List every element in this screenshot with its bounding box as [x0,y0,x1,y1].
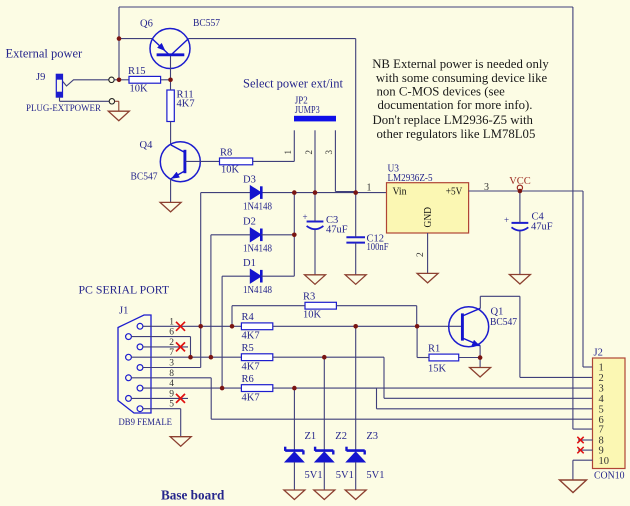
svg-text:GND: GND [423,207,434,228]
wire J1 line3 [143,367,201,369]
X mark line2 [176,342,185,351]
svg-text:DB9 FEMALE: DB9 FEMALE [119,417,173,428]
wire J1 line5 to ground [143,408,181,410]
diode D1 1N4148 [250,269,261,283]
wire JP2 pin2 [314,130,316,192]
transistor Q4 BC547 [160,142,200,182]
svg-text:J9: J9 [36,72,45,83]
resistor R6 [241,385,272,392]
ground J2 [560,480,587,493]
svg-text:5: 5 [599,404,604,415]
wire C4 top [519,191,521,223]
wire R1 left [416,326,418,357]
resistor R11 [167,90,174,122]
X mark line9 [176,394,185,403]
resistor R4 [241,323,272,330]
wire Q4 emitter to ground [170,179,172,203]
wire J1 line7 [131,356,241,358]
svg-text:R4: R4 [242,312,255,323]
svg-text:4K7: 4K7 [242,331,260,342]
zener Z1 5V1 [285,449,303,452]
svg-text:Select power ext/int: Select power ext/int [243,77,343,91]
wire J1 line6 [131,336,190,338]
svg-text:1N4148: 1N4148 [243,285,272,296]
svg-text:External power: External power [6,47,84,61]
svg-text:100nF: 100nF [367,242,389,253]
svg-text:PC SERIAL PORT: PC SERIAL PORT [79,283,170,297]
svg-text:D3: D3 [243,175,256,186]
wire J1 line1 [143,325,241,327]
jumper JP2 JUMP3 bar [294,116,336,122]
wire D2 row [211,234,251,236]
svg-text:R6: R6 [242,374,254,385]
svg-text:non C-MOS devices (see: non C-MOS devices (see [377,85,506,99]
ground Z3 [345,490,366,500]
svg-text:documentation for more info).: documentation for more info). [378,98,533,112]
capacitor C12 100nF [346,236,365,238]
svg-text:Z3: Z3 [366,431,378,442]
wire R3 left [232,305,305,307]
ground Z2 [314,490,335,500]
ground U3 [417,273,438,283]
pin circle jack sleeve [109,99,114,104]
zener Z2 5V1 [315,449,333,452]
svg-text:R3: R3 [303,292,315,303]
wire Z1 vertical [293,388,295,450]
svg-text:D1: D1 [243,258,256,269]
wire J2 pin7 stub [573,428,593,430]
wire D1 anode down to line4 [221,276,223,388]
wire top power rail [119,6,573,8]
wire C3 top [314,193,316,222]
svg-text:47uF: 47uF [531,222,553,233]
svg-text:JUMP3: JUMP3 [295,105,320,116]
wire diode cathode vertical [293,193,295,277]
svg-text:4K7: 4K7 [177,99,195,110]
wire zener grounds [293,462,295,490]
svg-text:CON10: CON10 [594,471,625,482]
svg-text:Q4: Q4 [140,140,154,151]
wire U3 pin2 gnd [427,233,429,273]
resistor R8 [220,158,253,165]
svg-text:2: 2 [304,150,314,155]
svg-text:PLUG-EXTPOWER: PLUG-EXTPOWER [26,104,102,114]
junction dots [117,36,122,41]
svg-text:2: 2 [599,373,604,384]
zener Z3 5V1 [347,449,365,452]
wire Q6 collector to bus [189,38,356,40]
svg-text:R15: R15 [128,66,146,77]
svg-text:Don't replace LM2936-Z5 with: Don't replace LM2936-Z5 with [373,113,534,127]
svg-text:15K: 15K [428,364,447,375]
svg-text:8: 8 [169,369,174,379]
wire jack sleeve [59,97,61,101]
wire R11 top [170,80,172,90]
resistor R3 [305,302,336,309]
svg-text:10K: 10K [303,310,322,321]
svg-text:4: 4 [599,394,605,405]
svg-text:5V1: 5V1 [305,470,323,481]
wire Q1 emitter [479,346,481,368]
svg-text:with some consuming device lik: with some consuming device like [376,71,548,85]
wire J1 line8 to J2 pin6 [131,377,211,379]
connector J2 CON10 box [593,358,626,469]
svg-text:J2: J2 [594,348,603,359]
svg-text:other regulators like LM78L05: other regulators like LM78L05 [377,127,536,141]
transistor Q6 BC557 [150,29,190,69]
svg-text:5V1: 5V1 [336,470,354,481]
svg-text:Z2: Z2 [335,431,347,442]
wire J2 pin9 stub [578,449,593,451]
svg-text:LM2936Z-5: LM2936Z-5 [388,173,433,184]
svg-text:10: 10 [599,456,610,467]
wire C3 bottom [314,230,316,275]
svg-text:Base board: Base board [161,488,225,503]
wire R4 net to J2 pin3 [356,387,593,389]
svg-text:+: + [303,212,308,222]
svg-text:1: 1 [367,183,372,194]
ground Q1 [470,368,491,378]
wire Q6 emitter [119,38,152,40]
wire R3 right [336,305,416,307]
X mark J2 pin8 [577,437,583,443]
regulator U3 LM2936Z-5 box [387,183,469,233]
X mark J2 pin9 [577,447,583,453]
svg-text:10K: 10K [130,84,149,95]
wire D2 anode down to line7 [210,235,212,357]
wire jack tip contact [63,80,109,86]
svg-text:Q6: Q6 [140,19,153,30]
resistor R15 [129,76,161,83]
wire R1 right [459,357,480,359]
wire C4 bottom [519,231,521,274]
wire R11 bottom to Q4 [170,122,172,145]
transistor Q1 BC547 [449,307,489,347]
svg-text:R5: R5 [242,343,254,354]
ground Z1 [284,490,305,500]
wire U3 pin3 +5V [469,190,583,192]
wire Z2 vertical [323,357,325,450]
pin circles J1 [137,323,143,329]
ground J1 [170,437,191,447]
wire R8 to JP2 pin1 [253,160,295,162]
svg-text:47uF: 47uF [326,225,348,236]
wire jack sleeve to ground [115,100,119,102]
resistor R5 [241,354,272,361]
svg-text:Q1: Q1 [491,307,504,318]
svg-text:BC547: BC547 [131,172,158,183]
svg-text:BC557: BC557 [193,18,220,29]
capacitor C4 47uF [512,222,529,224]
svg-text:7: 7 [169,348,174,358]
svg-text:3: 3 [169,359,174,369]
X mark line1 [176,322,185,331]
svg-text:1N4148: 1N4148 [243,244,272,255]
wire JP2 pin3 [334,130,336,191]
svg-text:BC547: BC547 [490,317,517,328]
svg-text:7: 7 [599,425,604,436]
wire R5 out to J2 pin4 [273,356,384,358]
resistor R1 [429,354,459,361]
wire R6 out to J2 pin5 [273,387,377,389]
svg-text:+: + [504,215,509,225]
wire main bus [201,192,251,194]
svg-text:NB External power is needed on: NB External power is needed only [372,57,549,71]
svg-text:VCC: VCC [509,176,531,187]
wire R15 to base junction [161,79,171,81]
wire J2 pin10 to ground [573,459,593,461]
ground Q4 [160,202,181,212]
svg-text:5: 5 [169,400,174,410]
svg-text:4K7: 4K7 [242,362,260,373]
svg-text:4K7: 4K7 [242,392,260,403]
wire R4 out to Q1 base [273,325,463,327]
ground C3 [305,275,326,285]
svg-text:4: 4 [169,379,174,389]
capacitor C3 47uF [307,221,324,223]
diode D2 1N4148 [250,228,261,242]
power port VCC [517,185,522,190]
connector J9 jack body [56,74,62,97]
svg-text:1: 1 [283,150,293,155]
wire Q1 collector to J2 pin2 [479,296,481,308]
wire J1 line9 [131,397,188,399]
wire jack tip to R15 [114,79,129,81]
svg-text:2: 2 [169,338,174,348]
wire J2 pin8 stub [578,439,593,441]
svg-text:1: 1 [599,363,604,374]
wire Q6 base lead [170,56,172,80]
diode D3 1N4148 [250,186,261,200]
wire Q4 base to R8 [185,160,219,162]
svg-text:Vin: Vin [393,187,407,198]
wire right rail down to J2 pin 7 [572,7,574,429]
svg-text:3: 3 [324,150,334,155]
svg-text:1: 1 [169,317,174,327]
svg-text:1N4148: 1N4148 [243,202,272,213]
wire J1 line4 [143,387,241,389]
wire D1 row [222,275,250,277]
svg-text:R8: R8 [220,148,232,159]
ground J9 [108,111,129,121]
svg-text:5V1: 5V1 [366,470,384,481]
wire D3 anode down to line3 [200,193,202,368]
svg-text:2: 2 [416,252,426,257]
wire C12 bottom [355,243,357,275]
wire C12 top [355,193,357,238]
svg-text:D2: D2 [243,217,256,228]
svg-text:R1: R1 [428,344,440,355]
connector J1 DB9 outline [118,315,151,413]
svg-text:Z1: Z1 [305,431,317,442]
ground C4 [509,275,530,285]
ground C12 [345,275,366,285]
wire left rail vertical [118,7,120,80]
wire Z3 vertical [355,326,357,450]
svg-text:10K: 10K [221,165,240,176]
svg-text:J1: J1 [119,306,128,317]
svg-text:6: 6 [169,328,174,338]
svg-text:+5V: +5V [446,187,463,198]
wire J1 line2 [143,346,188,348]
svg-text:9: 9 [169,389,174,399]
pin circle jack tip [109,77,114,82]
